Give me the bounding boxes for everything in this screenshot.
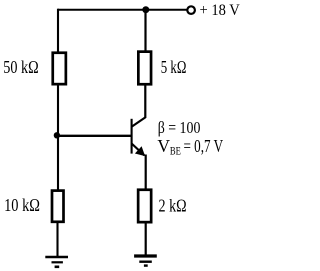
resistor R1 50k box [53,53,66,84]
resistor R3 5k box [138,52,151,85]
svg-text:10 kΩ: 10 kΩ [4,195,40,215]
node junction dot on top rail [142,6,149,13]
wire emitter bottom (R4 to ground) [145,222,147,255]
wire right vertical (rail to R3 top) [144,10,146,52]
node B junction dot [54,132,60,138]
wire base (node B to transistor base) [57,135,131,137]
svg-text:50 kΩ: 50 kΩ [3,57,38,77]
transistor collector lead [132,117,146,127]
ground left [45,257,68,267]
wire top rail [58,9,188,11]
ground right [134,256,157,266]
wire left vertical (rail to R1 top) [57,9,59,53]
wire left middle (R1 bottom to node B to R2 top) [57,85,59,191]
resistor R4 2k box [138,190,151,222]
transistor base bar [131,119,133,154]
resistor R2 10k box [52,191,64,222]
svg-text:+ 18 V: + 18 V [200,2,241,19]
svg-text:VBE= 0,7 V: VBE= 0,7 V [157,136,223,158]
transistor emitter lead [132,144,145,156]
svg-text:β = 100: β = 100 [158,118,201,137]
wire emitter vertical (arrow to R4 top) [145,155,147,190]
transistor emitter arrowhead [135,146,145,156]
terminal +18V open circle [187,6,195,14]
wire collector vertical (R3 bottom to transistor) [144,85,146,119]
svg-text:5 kΩ: 5 kΩ [161,57,187,77]
svg-text:2 kΩ: 2 kΩ [159,196,187,216]
transistor Q1 [132,117,146,156]
wire left bottom (R2 bottom to ground) [56,222,58,256]
